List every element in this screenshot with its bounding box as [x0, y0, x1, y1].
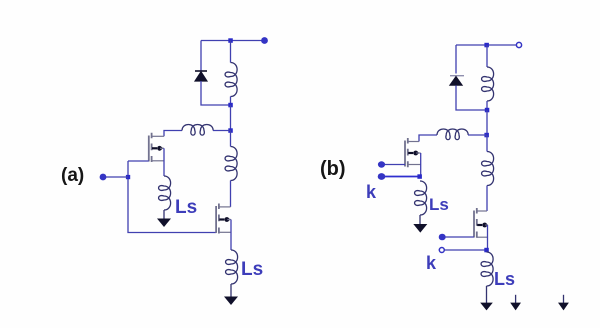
diode D1 — [195, 71, 208, 81]
wire drain step M3 b — [419, 135, 437, 142]
svg-text:k: k — [426, 253, 437, 273]
wire L1b bottom lead b — [486, 101, 488, 110]
svg-text:Ls: Ls — [175, 197, 197, 218]
wire diode branch bottom a — [201, 81, 231, 105]
node open terminal k2 source b — [439, 248, 444, 253]
node input terminal a — [100, 174, 107, 181]
wire left rail a — [128, 161, 216, 233]
ground GND4 b — [480, 303, 493, 311]
wire Ls1 to ground a — [163, 210, 165, 219]
ground GND1 a — [157, 219, 171, 228]
wire Ls3 to ground b — [419, 215, 421, 225]
svg-text:Ls: Ls — [494, 269, 515, 289]
diode D2 — [450, 76, 464, 86]
wire L1b top lead b — [486, 45, 488, 67]
wire rail b — [486, 110, 488, 135]
wire top rail b — [456, 44, 516, 46]
inductor L2b (right rail) b — [482, 152, 494, 186]
inductor L3b (horizontal) b — [437, 129, 468, 140]
inductor Ls2 a — [226, 250, 238, 284]
wire top rail a — [201, 40, 265, 42]
transistor M4 (lower MOSFET) b — [474, 208, 488, 238]
wire M1 gate lead a — [128, 160, 149, 162]
node junction rail/L3 a — [228, 128, 233, 133]
wire L3 right lead a — [213, 130, 231, 132]
svg-text:(b): (b) — [320, 158, 346, 180]
inductor L1b (vertical, parallel with diode) b — [482, 67, 494, 101]
wire L3b right lead b — [468, 134, 487, 136]
ground GND5 stem b — [515, 295, 517, 303]
transistor M3 (upper MOSFET) b — [405, 138, 421, 167]
wire L1 bottom lead a — [230, 97, 232, 106]
node top-right terminal a — [261, 37, 268, 44]
wire input lead a — [103, 176, 128, 178]
wire M2 body-source down a — [230, 220, 232, 251]
node junction M4 source b — [484, 248, 489, 253]
wire L2b top lead b — [486, 135, 488, 152]
wire Ls4 to ground b — [486, 286, 488, 303]
wire M4 gate lead b — [445, 236, 474, 238]
ground GND3 b — [413, 224, 427, 233]
wire source link M4 b — [445, 249, 486, 251]
wire Ls2 to ground a — [230, 284, 232, 297]
ground GND2 a — [224, 297, 238, 306]
wire diode branch bottom b — [456, 85, 487, 110]
node junction rail/L3b b — [484, 133, 489, 138]
wire source link b (selected) — [384, 176, 420, 178]
svg-text:(a): (a) — [61, 165, 84, 186]
wire L2 top lead a — [230, 131, 232, 147]
node terminal k1 source b — [378, 173, 386, 180]
ground GND6 b — [558, 303, 569, 311]
node terminal k2 gate b — [439, 234, 446, 241]
svg-text:Ls: Ls — [429, 195, 449, 214]
wire L1 top lead a — [230, 41, 232, 63]
wire M3 gate lead b — [384, 164, 405, 166]
inductor Ls3 b — [415, 181, 427, 215]
node junction M3 source b — [417, 174, 422, 179]
node top-right open terminal b — [516, 42, 521, 47]
node junction input a — [126, 175, 130, 179]
wire diode branch top b — [455, 45, 457, 74]
transistor M1 (upper MOSFET) a — [149, 133, 164, 162]
node junction top a — [228, 38, 233, 43]
ground GND5 b — [510, 303, 521, 311]
wire M1 body-source down a — [163, 148, 165, 176]
wire L2 bottom to M2 drain a — [230, 181, 232, 207]
inductor Ls1 a — [159, 176, 171, 210]
wire L2b bottom to M4 drain b — [486, 186, 488, 212]
inductor L3 (horizontal) a — [182, 125, 213, 136]
transistor M2 (lower MOSFET) a — [216, 204, 231, 234]
wire drain step M1 a — [164, 131, 182, 137]
wire rail a — [230, 105, 232, 131]
node junction top b — [484, 43, 489, 48]
wire M4 body-source down b — [487, 225, 489, 250]
node junction diode/L1 bottom a — [228, 103, 233, 108]
node terminal k1 gate b — [378, 161, 385, 167]
svg-text:Ls: Ls — [241, 259, 263, 280]
inductor L2 (right rail) a — [225, 147, 237, 181]
wire diode branch top a — [200, 41, 202, 72]
inductor L1 (vertical, parallel with diode) a — [225, 63, 237, 97]
inductor Ls4 b — [481, 252, 493, 286]
ground GND6 stem b — [563, 295, 565, 303]
svg-text:k: k — [366, 182, 377, 202]
wire M3 body-source down b — [420, 153, 422, 177]
node junction diode/L1b bottom b — [485, 108, 490, 113]
